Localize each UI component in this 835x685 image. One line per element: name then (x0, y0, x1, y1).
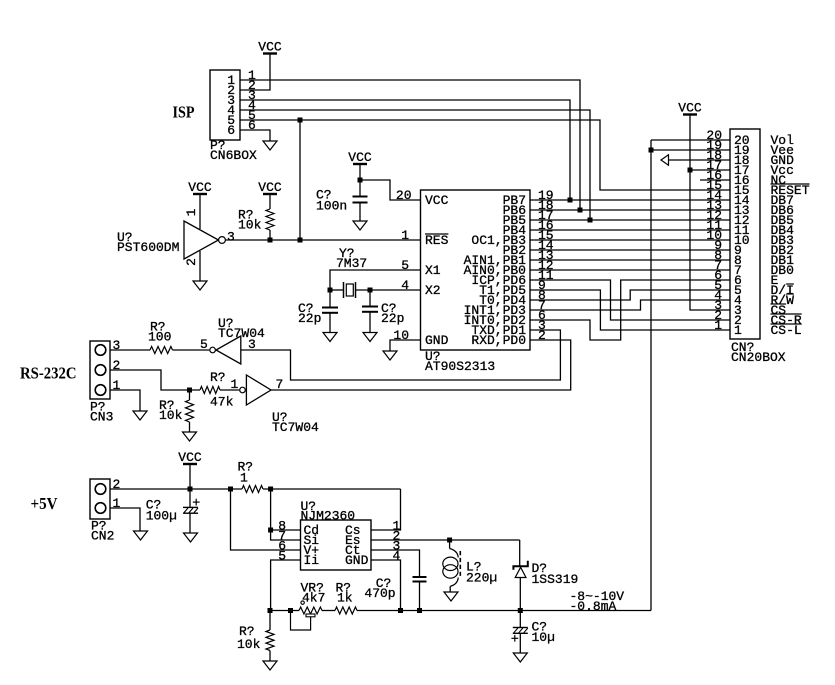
svg-text:10µ: 10µ (532, 630, 555, 645)
svg-text:4: 4 (401, 278, 409, 293)
svg-text:VCC: VCC (178, 450, 202, 465)
svg-text:5: 5 (200, 337, 208, 352)
svg-text:2: 2 (113, 477, 121, 492)
svg-text:10k: 10k (238, 218, 262, 233)
svg-text:PST600DM: PST600DM (117, 240, 179, 255)
svg-text:100n: 100n (316, 199, 347, 214)
svg-text:4k7: 4k7 (302, 591, 325, 606)
svg-text:1: 1 (231, 377, 239, 392)
svg-text:3: 3 (248, 337, 256, 352)
svg-text:1: 1 (113, 378, 121, 393)
svg-text:ISP: ISP (173, 102, 195, 121)
svg-text:VCC: VCC (258, 39, 282, 54)
svg-text:1k: 1k (337, 591, 353, 606)
svg-text:TC7W04: TC7W04 (272, 420, 319, 435)
svg-text:VCC: VCC (678, 100, 702, 115)
svg-text:6: 6 (227, 123, 235, 138)
svg-text:22p: 22p (381, 311, 404, 326)
svg-text:2: 2 (113, 358, 121, 373)
svg-text:47k: 47k (210, 395, 234, 410)
svg-text:CN2: CN2 (91, 529, 114, 544)
svg-text:TC7W04: TC7W04 (218, 326, 265, 341)
svg-text:20: 20 (396, 188, 412, 203)
svg-text:RS-232C: RS-232C (20, 364, 77, 383)
svg-text:4: 4 (393, 549, 401, 564)
svg-text:10k: 10k (159, 408, 183, 423)
svg-text:+5V: +5V (31, 494, 59, 513)
svg-text:1: 1 (184, 208, 199, 216)
svg-text:VCC: VCC (188, 180, 212, 195)
svg-text:NJM2360: NJM2360 (301, 509, 356, 524)
svg-text:CN6BOX: CN6BOX (210, 148, 257, 163)
svg-text:X2: X2 (425, 283, 441, 298)
svg-text:100: 100 (148, 330, 171, 345)
svg-text:7M37: 7M37 (336, 256, 367, 271)
svg-text:RES: RES (425, 233, 449, 248)
svg-text:VCC: VCC (425, 193, 449, 208)
svg-text:1: 1 (240, 471, 248, 486)
svg-text:GND: GND (425, 333, 449, 348)
svg-text:5: 5 (401, 258, 409, 273)
svg-text:CN20BOX: CN20BOX (731, 350, 786, 365)
svg-text:AT90S2313: AT90S2313 (425, 359, 495, 374)
svg-text:1: 1 (714, 318, 722, 333)
svg-text:GND: GND (345, 553, 369, 568)
svg-text:3: 3 (113, 338, 121, 353)
svg-text:1: 1 (734, 323, 742, 338)
svg-text:R?: R? (210, 370, 226, 385)
svg-text:220µ: 220µ (466, 571, 497, 586)
svg-text:10k: 10k (237, 637, 261, 652)
svg-text:10: 10 (393, 328, 409, 343)
svg-text:Ii: Ii (304, 553, 320, 568)
svg-text:1: 1 (113, 496, 121, 511)
svg-text:3: 3 (227, 230, 235, 245)
svg-text:7: 7 (276, 377, 284, 392)
svg-text:CN3: CN3 (90, 410, 113, 425)
svg-text:100µ: 100µ (146, 509, 177, 524)
svg-text:CS-L: CS-L (771, 323, 802, 338)
svg-text:-0.8mA: -0.8mA (570, 599, 617, 614)
svg-text:VCC: VCC (258, 180, 282, 195)
svg-text:470p: 470p (364, 586, 395, 601)
svg-text:X1: X1 (425, 263, 441, 278)
svg-text:2: 2 (184, 258, 199, 266)
svg-text:1SS319: 1SS319 (532, 572, 579, 587)
svg-text:5: 5 (278, 549, 286, 564)
svg-text:22p: 22p (298, 311, 321, 326)
svg-text:VCC: VCC (348, 150, 372, 165)
svg-text:RXD,PD0: RXD,PD0 (471, 333, 526, 348)
svg-text:1: 1 (401, 228, 409, 243)
